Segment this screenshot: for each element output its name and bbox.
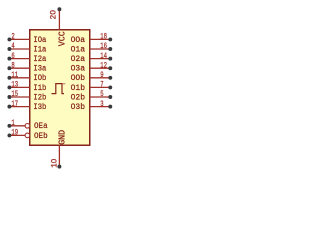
node dot pin 15 — [7, 95, 11, 99]
svg-text:O2a: O2a — [71, 55, 85, 64]
wire pin 10 (GND) bottom — [58, 145, 60, 167]
svg-text:O1a: O1a — [71, 45, 85, 54]
wire pin 3 (O3b) right — [90, 106, 111, 108]
svg-text:2O: 2O — [49, 10, 58, 20]
svg-text:7: 7 — [100, 81, 103, 90]
inversion bubble OEa — [25, 124, 30, 129]
svg-text:1O: 1O — [51, 158, 59, 167]
node dot pin 5 — [108, 95, 112, 99]
svg-text:19: 19 — [11, 129, 18, 138]
wire pin 11 (I0b) left — [9, 77, 30, 79]
svg-text:11: 11 — [11, 71, 18, 80]
wire pin 13 (I1b) left — [9, 86, 30, 88]
IC body U1 — [30, 30, 90, 146]
node dot pin 11 — [7, 76, 11, 80]
wire pin 12 (O3a) right — [90, 67, 111, 69]
svg-text:14: 14 — [100, 52, 107, 61]
wire pin 7 (O1b) right — [90, 86, 111, 88]
node dot pin 14 — [108, 57, 112, 61]
node dot pin 18 — [108, 37, 112, 41]
node dot pin 20 — [57, 7, 61, 11]
node dot pin 8 — [7, 66, 11, 70]
wire pin 5 (O2b) right — [90, 96, 111, 98]
svg-text:17: 17 — [11, 100, 18, 109]
svg-text:IOb: IOb — [33, 74, 46, 84]
wire pin 16 (O1a) right — [90, 48, 111, 50]
svg-text:18: 18 — [100, 33, 107, 42]
svg-text:I3a: I3a — [33, 64, 46, 74]
svg-text:16: 16 — [100, 42, 107, 51]
node dot pin 9 — [108, 76, 112, 80]
svg-text:2: 2 — [11, 33, 14, 42]
svg-text:I3b: I3b — [33, 102, 46, 112]
svg-text:3: 3 — [100, 100, 103, 109]
svg-text:OEb: OEb — [34, 130, 48, 141]
svg-text:9: 9 — [100, 71, 103, 80]
svg-text:1: 1 — [11, 119, 14, 128]
svg-text:O3a: O3a — [71, 64, 85, 73]
wire pin 8 (I3a) left — [9, 67, 30, 69]
node dot pin 19 — [7, 133, 11, 137]
svg-text:OEa: OEa — [34, 122, 48, 132]
node dot pin 4 — [7, 47, 11, 51]
wire pin 1 (OEa) left — [9, 125, 25, 127]
svg-text:5: 5 — [100, 90, 103, 99]
node dot pin 6 — [7, 57, 11, 61]
svg-text:O3b: O3b — [71, 102, 85, 112]
wire pin 9 (O0b) right — [90, 77, 111, 79]
svg-text:VCC: VCC — [57, 31, 67, 46]
node dot pin 1 — [7, 124, 11, 128]
svg-text:I1b: I1b — [33, 83, 46, 93]
node dot pin 7 — [108, 85, 112, 89]
svg-text:OOb: OOb — [71, 73, 85, 83]
node dot pin 12 — [108, 66, 112, 70]
wire pin 14 (O2a) right — [90, 58, 111, 60]
inversion bubble OEb — [25, 133, 30, 138]
svg-text:I2b: I2b — [33, 93, 46, 103]
wire pin 4 (I1a) left — [9, 48, 30, 50]
svg-text:4: 4 — [11, 42, 14, 51]
svg-text:I2a: I2a — [33, 54, 46, 64]
svg-text:13: 13 — [11, 81, 18, 90]
wire pin 17 (I3b) left — [9, 106, 30, 108]
node dot pin 3 — [108, 105, 112, 109]
node dot pin 10 — [57, 165, 61, 169]
svg-text:O1b: O1b — [71, 83, 85, 93]
svg-text:6: 6 — [11, 52, 14, 61]
wire pin 19 (OEb) left — [9, 134, 25, 136]
svg-text:8: 8 — [11, 62, 14, 71]
wire pin 6 (I2a) left — [9, 58, 30, 60]
svg-text:I1a: I1a — [33, 45, 46, 55]
pulse icon faint top tail — [62, 83, 65, 85]
svg-text:GND: GND — [57, 130, 67, 145]
svg-text:15: 15 — [11, 90, 18, 99]
node dot pin 2 — [7, 37, 11, 41]
svg-text:IOa: IOa — [33, 35, 46, 45]
node dot pin 13 — [7, 85, 11, 89]
node dot pin 16 — [108, 47, 112, 51]
wire pin 15 (I2b) left — [9, 96, 30, 98]
wire pin 2 (I0a) left — [9, 38, 30, 40]
wire pin 20 (VCC) top — [58, 9, 60, 30]
svg-text:OOa: OOa — [71, 36, 85, 45]
node dot pin 17 — [7, 105, 11, 109]
wire pin 18 (O0a) right — [90, 38, 111, 40]
svg-text:O2b: O2b — [71, 92, 85, 102]
pulse icon inside body — [52, 84, 65, 94]
svg-text:12: 12 — [100, 62, 107, 71]
